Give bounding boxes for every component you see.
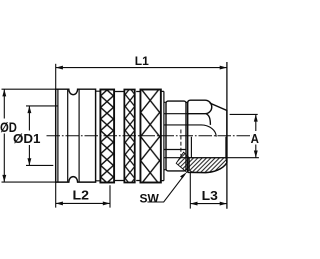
svg-text:A: A <box>251 131 259 146</box>
svg-text:L1: L1 <box>135 54 149 68</box>
svg-text:L3: L3 <box>202 188 218 203</box>
svg-text:SW: SW <box>140 191 160 205</box>
svg-text:L2: L2 <box>73 188 90 203</box>
svg-text:ØD1: ØD1 <box>13 131 41 146</box>
